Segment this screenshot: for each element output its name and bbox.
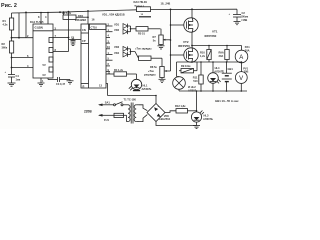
- svg-text:R5 51: R5 51: [138, 32, 145, 36]
- svg-text:VD1: VD1: [114, 22, 120, 26]
- svg-text:АЛ307Б: АЛ307Б: [203, 117, 213, 121]
- wire bridge plus up: [155, 96, 157, 104]
- svg-text:R2: R2: [2, 42, 6, 46]
- svg-text:18...24В: 18...24В: [161, 2, 171, 6]
- svg-text:8: 8: [38, 15, 40, 19]
- wire drain/source bus y47: [192, 45, 242, 47]
- svg-text:VD4: VD4: [114, 51, 120, 55]
- svg-text:R9А: R9А: [219, 51, 224, 55]
- svg-text:C2: C2: [242, 11, 246, 15]
- pin 4 stub: [47, 13, 49, 25]
- svg-text:+: +: [5, 71, 7, 74]
- resistor R9b parallel: [179, 62, 197, 73]
- svg-text:IRFP260: IRFP260: [205, 34, 217, 38]
- svg-text:Рис. 2: Рис. 2: [1, 3, 17, 9]
- wire to VT1 gate: [171, 24, 186, 26]
- mains input arrows 220V: [84, 104, 110, 117]
- svg-text:«Ток: «Ток: [148, 69, 154, 73]
- svg-text:GB1 10...55 А·час: GB1 10...55 А·час: [215, 99, 239, 103]
- wire bridge out to R12: [165, 111, 176, 113]
- svg-text:PA1: PA1: [245, 45, 250, 49]
- resistor R11: [193, 62, 203, 91]
- wire battery minus rail: [179, 90, 247, 92]
- svg-text:30А: 30А: [245, 49, 250, 53]
- voltmeter PV1: [235, 62, 248, 91]
- wire vertical x68.5 rail to pin8 row: [68, 12, 70, 52]
- trimmer R7: [153, 35, 171, 45]
- svg-text:4: 4: [45, 15, 47, 19]
- wire top rail right: [151, 8, 238, 10]
- svg-text:R3 6,2к: R3 6,2к: [62, 11, 72, 15]
- ground below C4: [8, 77, 16, 86]
- svg-text:IRFP250: IRFP250: [178, 44, 190, 48]
- diode VD1: [114, 22, 131, 28]
- LED HL3: [191, 111, 213, 123]
- svg-text:4,3к: 4,3к: [3, 23, 9, 27]
- svg-text:DA1 TL555: DA1 TL555: [30, 20, 44, 24]
- svg-text:R11: R11: [193, 76, 198, 80]
- switch SA1: [105, 101, 127, 106]
- svg-text:VD6: VD6: [164, 114, 170, 118]
- wire pin6 row: [12, 57, 34, 59]
- wire to VT2 gate: [171, 54, 186, 56]
- svg-text:АЛ307: АЛ307: [188, 89, 197, 93]
- wire DA1 pin7 with capacitor C1: [53, 37, 69, 39]
- svg-text:30В: 30В: [244, 70, 249, 74]
- svg-text:V: V: [239, 76, 243, 82]
- DD1 pin16 stub: [87, 11, 89, 24]
- svg-text:0V: 0V: [43, 73, 46, 77]
- capacitor C4: [5, 71, 21, 82]
- ground bar below HL1: [133, 90, 140, 92]
- svg-text:A: A: [239, 55, 243, 61]
- svg-text:DA3 78L09: DA3 78L09: [134, 0, 148, 4]
- node dot rail x60: [59, 11, 61, 13]
- diode VD2: [114, 28, 131, 34]
- wire DA1 pin8 row: [53, 51, 69, 53]
- battery GB1: [222, 62, 234, 91]
- ground below C2: [234, 17, 241, 25]
- LED HL4: [208, 62, 225, 91]
- svg-text:CN: CN: [82, 28, 86, 32]
- resistor R10: [200, 46, 211, 63]
- svg-text:1: 1: [42, 79, 44, 83]
- wire top rail left: [12, 10, 137, 13]
- svg-text:1,2к: 1,2к: [200, 54, 206, 58]
- svg-text:К561ИЕ8: К561ИЕ8: [75, 18, 87, 22]
- svg-text:5V: 5V: [43, 63, 46, 67]
- wire VD3/VD4 collector: [130, 49, 132, 55]
- svg-text:GB1: GB1: [228, 67, 234, 71]
- svg-text:GBL2504: GBL2504: [159, 117, 171, 121]
- svg-text:510: 510: [193, 79, 198, 83]
- wire VT1 source down: [191, 32, 193, 46]
- wire VD1/VD2 collector: [130, 26, 132, 32]
- svg-text:360к: 360к: [2, 46, 8, 50]
- wire DA1 pin3 to DD1 CN: [53, 29, 81, 31]
- svg-text:R10: R10: [200, 51, 205, 55]
- wire vertical x26 to pin2 row: [25, 12, 27, 37]
- capacitor C2: [229, 9, 249, 22]
- wire R12 node up to rail: [196, 91, 198, 111]
- svg-text:R8 5к: R8 5к: [150, 65, 157, 69]
- wire secondary to bridge: [139, 105, 147, 111]
- svg-text:VD2: VD2: [114, 28, 120, 32]
- svg-text:Вывод 1: Вывод 1: [135, 5, 145, 7]
- svg-text:R12 1,8к: R12 1,8к: [175, 104, 186, 108]
- svg-text:12: 12: [141, 14, 144, 16]
- diode VD3: [114, 45, 131, 51]
- svg-text:30А: 30А: [219, 54, 224, 58]
- regulator DA3: [134, 0, 152, 17]
- svg-text:VD3: VD3: [114, 45, 120, 49]
- svg-text:16: 16: [92, 17, 95, 21]
- DA1 bottom pin 1 to ground: [38, 78, 45, 86]
- resistor R2: [2, 41, 14, 53]
- svg-text:VD1...VD4 КД521В: VD1...VD4 КД521В: [102, 13, 125, 17]
- svg-text:CP: CP: [82, 39, 86, 43]
- resistor R1: [3, 13, 14, 30]
- svg-text:HL3: HL3: [204, 114, 209, 118]
- wire pin2 row: [12, 37, 34, 39]
- svg-text:C3 0,47: C3 0,47: [56, 82, 66, 86]
- svg-text:Т1 ТС-180: Т1 ТС-180: [124, 98, 137, 102]
- DA1 bottom pin 5 with capacitor C3: [48, 77, 70, 86]
- wire to DD1 CP: [69, 39, 82, 41]
- resistor R4: [113, 68, 137, 79]
- svg-text:CT10: CT10: [91, 26, 98, 30]
- node junction R1/R2/pin2: [11, 37, 13, 39]
- wire vertical x19 to pin2 row: [18, 13, 20, 38]
- capacitor C1: [71, 36, 76, 46]
- svg-text:SA1: SA1: [105, 101, 111, 105]
- transformer T1: [124, 98, 140, 124]
- fuse FU1: [99, 113, 127, 122]
- svg-text:+: +: [229, 13, 231, 16]
- node rail dots: [40, 12, 42, 14]
- transistor VT1: [184, 18, 218, 38]
- op-amp timer DA1 TL555: [30, 20, 53, 78]
- resistor R9 shunt: [219, 46, 230, 63]
- svg-text:R: R: [83, 85, 85, 89]
- svg-text:«Ток заряда»: «Ток заряда»: [135, 47, 152, 51]
- LED HL1: [129, 79, 152, 91]
- svg-text:разряда»: разряда»: [144, 72, 157, 76]
- DD1 output stubs with pin numbers: [106, 22, 113, 74]
- svg-text:220В: 220В: [84, 110, 92, 114]
- ground below R7: [158, 45, 165, 50]
- svg-text:HL1: HL1: [143, 84, 148, 88]
- svg-text:Ø HL2: Ø HL2: [188, 85, 196, 89]
- ammeter PA1: [235, 45, 250, 63]
- wire R1-R2 column: [11, 30, 13, 41]
- resistor R12: [175, 104, 197, 113]
- svg-text:×16В: ×16В: [241, 18, 247, 22]
- svg-text:FU1: FU1: [104, 118, 109, 122]
- wire gate feed vertical: [170, 9, 172, 71]
- bridge rectifier VD5: [147, 104, 171, 122]
- resistor R6: [139, 56, 163, 67]
- wire VT1 drain to rail: [191, 9, 193, 18]
- node dots: [68, 11, 70, 13]
- lamp HL2: [173, 62, 197, 93]
- node junction pin6: [11, 57, 13, 59]
- svg-text:1мк: 1мк: [16, 78, 21, 82]
- svg-text:R9 1Ом: R9 1Ом: [181, 64, 190, 68]
- svg-text:G1(2И): G1(2И): [35, 26, 44, 30]
- ground right of C3: [67, 80, 74, 85]
- resistor R3: [62, 11, 89, 19]
- pin 8 stub: [40, 13, 42, 24]
- wire bridge minus down: [156, 122, 197, 126]
- svg-text:DD1: DD1: [78, 14, 84, 18]
- node rail dot x26: [25, 12, 27, 14]
- svg-text:C4: C4: [16, 74, 20, 78]
- counter DD1 K561IE8: [75, 14, 106, 89]
- svg-text:100мк: 100мк: [241, 15, 249, 19]
- svg-text:АЛ307Б: АЛ307Б: [142, 87, 152, 91]
- ground below HL3: [193, 122, 200, 129]
- resistor R5: [136, 27, 161, 36]
- node dot: [18, 37, 20, 39]
- wire bottom supply row: [108, 95, 157, 97]
- wire battery plus bus y62: [177, 61, 242, 63]
- trimmer R8: [150, 65, 171, 83]
- diode VD4: [114, 51, 131, 57]
- svg-text:R1: R1: [3, 19, 7, 23]
- transistor VT2: [178, 40, 198, 62]
- wire below R2: [11, 53, 13, 75]
